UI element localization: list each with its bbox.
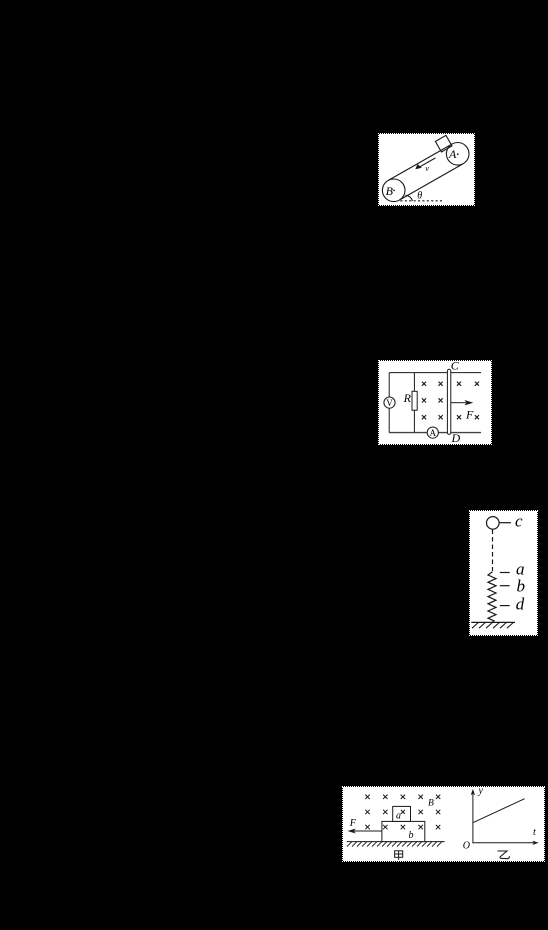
resistor R body: [412, 391, 417, 410]
ground hatching: [347, 842, 442, 847]
block b: [382, 821, 425, 841]
belt bottom edge: [399, 164, 463, 201]
bottom rail: [389, 432, 481, 434]
rod CD: [447, 369, 450, 434]
svg-text:C: C: [451, 361, 460, 373]
svg-text:a: a: [396, 811, 401, 822]
tick b: [500, 585, 510, 587]
ground hatching: [472, 622, 514, 628]
svg-text:B: B: [386, 184, 394, 198]
field crosses: [422, 382, 479, 420]
graph line: [473, 799, 525, 823]
svg-text:D: D: [451, 431, 461, 444]
svg-text:y: y: [478, 787, 484, 797]
R branch wire top: [413, 373, 415, 392]
svg-text:V: V: [386, 398, 393, 408]
t axis: [473, 842, 534, 844]
field crosses grid: [365, 795, 440, 830]
svg-text:θ: θ: [417, 191, 422, 202]
force arrow F: [451, 402, 466, 404]
svg-text:R: R: [403, 391, 412, 405]
svg-text:b: b: [409, 830, 414, 841]
crosses inside block b: [383, 825, 387, 829]
svg-text:O: O: [463, 840, 470, 851]
ground line: [347, 841, 445, 843]
svg-text:c: c: [515, 511, 523, 530]
svg-text:A: A: [448, 147, 457, 161]
belt top edge: [388, 144, 452, 181]
axle dot A: [457, 153, 459, 155]
svg-text:d: d: [516, 595, 525, 614]
force arrow F: [353, 830, 382, 832]
ball: [487, 517, 500, 530]
svg-text:b: b: [517, 577, 526, 596]
axle dot B: [393, 190, 395, 192]
figure box 3: ball and spring: [470, 511, 537, 635]
R branch wire bottom: [413, 410, 415, 432]
block a: [393, 806, 411, 821]
pulley B: [382, 179, 405, 202]
ground line: [471, 621, 515, 623]
figure box 2: electromagnetic induction circuit: [379, 361, 491, 444]
svg-text:t: t: [533, 827, 536, 838]
label yi (Chinese): [498, 851, 510, 859]
svg-text:F: F: [349, 818, 357, 829]
spring: [488, 572, 496, 623]
cross inside block a: [401, 810, 405, 814]
svg-text:A: A: [430, 428, 437, 438]
svg-text:a: a: [516, 559, 525, 578]
svg-text:B: B: [428, 799, 434, 809]
left wire bottom: [388, 408, 390, 432]
voltmeter circle: [384, 397, 395, 408]
y axis: [472, 793, 474, 843]
svg-text:F: F: [465, 407, 474, 421]
dashed ground reference line: [400, 200, 444, 202]
figure box 4: blocks in field (jia) and graph (yi): [343, 787, 544, 861]
link line to label c: [500, 522, 512, 524]
label jia (Chinese): [395, 851, 403, 860]
ammeter circle: [427, 427, 438, 438]
tick d: [500, 605, 510, 607]
svg-text:v: v: [425, 163, 429, 173]
dashed drop line: [492, 530, 494, 572]
tick a: [500, 572, 510, 574]
top rail: [389, 372, 481, 374]
block on belt: [435, 135, 452, 152]
pulley A: [446, 143, 469, 166]
figure box 1: conveyor belt: [379, 134, 474, 205]
left wire top: [388, 373, 390, 397]
velocity arrow v: [417, 158, 435, 168]
angle arc: [406, 195, 413, 201]
